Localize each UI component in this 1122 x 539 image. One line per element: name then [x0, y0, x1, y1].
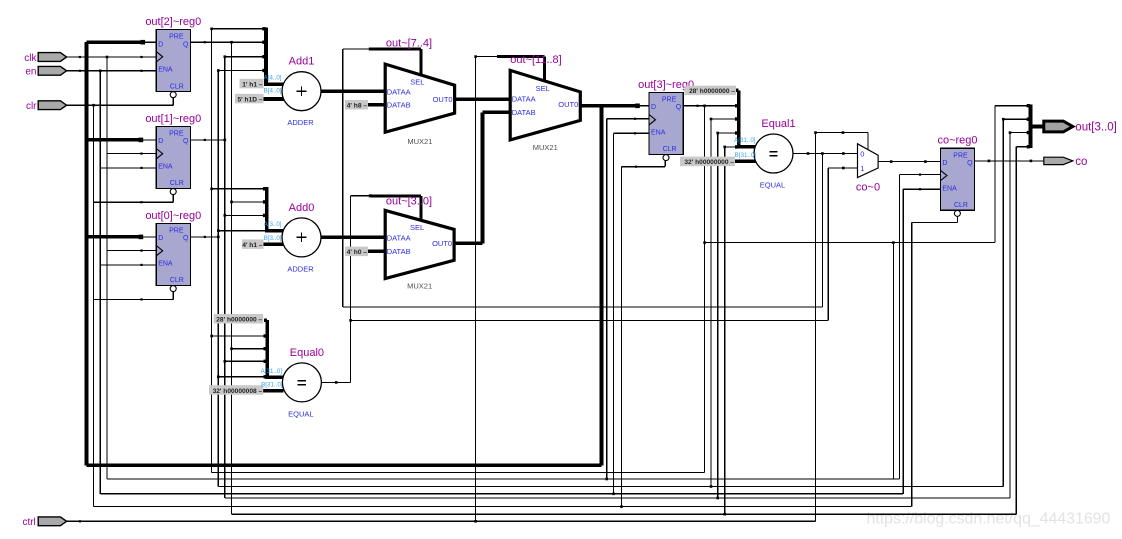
svg-text:B[31..0]: B[31..0]	[735, 152, 757, 159]
svg-text:SEL: SEL	[410, 78, 424, 87]
svg-text:DATAA: DATAA	[387, 233, 411, 242]
tick out2 ena	[140, 70, 142, 72]
label B[3..0] Add0	[264, 235, 282, 242]
wire add1 A bus	[264, 27, 268, 84]
svg-text:ENA: ENA	[942, 185, 957, 192]
junction eq0 branch	[349, 319, 352, 322]
wire mux74 B const	[368, 103, 385, 107]
wire mux30 out riser	[481, 112, 485, 243]
wire mux118 sel h thin	[476, 56, 497, 58]
svg-text:CLR: CLR	[663, 146, 677, 153]
svg-text:SEL: SEL	[536, 84, 550, 93]
wire en to out0 ENA	[100, 264, 156, 266]
wire clr riser to co-reg	[911, 223, 913, 507]
tick coreg ena	[919, 188, 921, 190]
nub out3 D	[635, 104, 640, 109]
wire bus stub to out0 D	[87, 235, 141, 239]
tick co0-1	[842, 167, 845, 170]
svg-text:SEL: SEL	[410, 223, 424, 232]
svg-text:out~[3..0]: out~[3..0]	[386, 195, 432, 207]
wire add0 row bit3	[212, 188, 267, 190]
wire eq1 col bit0	[724, 147, 726, 514]
svg-text:28' h0000000 –: 28' h0000000 –	[689, 88, 735, 95]
svg-text:DATAA: DATAA	[387, 87, 411, 96]
svg-text:out~[7..4]: out~[7..4]	[386, 38, 432, 50]
wire clk riser to co-reg clock	[899, 175, 901, 479]
input pin clk	[24, 53, 66, 64]
wire clr out1 bubble drop	[172, 195, 174, 203]
nub eq0 r4	[264, 375, 267, 378]
wire eq1 row bit2	[711, 118, 739, 120]
wire clr to out1 bubble h	[94, 201, 174, 203]
svg-text:Add0: Add0	[289, 202, 315, 214]
svg-text:PRE: PRE	[662, 97, 677, 104]
wire eq0 row bit0	[218, 376, 267, 378]
tick add0 out b	[369, 236, 372, 239]
wire add0 B const	[264, 242, 285, 246]
junction ctrl col top	[474, 55, 477, 58]
wire outbus col bit1	[1009, 133, 1011, 498]
wire out2 D thin tail	[143, 41, 156, 43]
mux out~[7..4]	[385, 38, 454, 147]
wire en bottom run	[100, 493, 903, 495]
nub add0 r2	[263, 200, 266, 203]
svg-text:MUX21: MUX21	[533, 143, 558, 152]
wire mux74 sel riser	[420, 49, 423, 76]
wire outbus col bit0	[1015, 147, 1017, 515]
svg-text:MUX21: MUX21	[407, 282, 432, 291]
wire eq1 A into comp	[737, 145, 756, 149]
wire ctrl sel col	[475, 57, 477, 522]
junction col3 eq0	[210, 335, 213, 338]
corner add1 r3	[224, 55, 227, 58]
svg-text:4' h1 –: 4' h1 –	[242, 242, 263, 249]
wire mux30 out	[454, 242, 482, 246]
wire eq0-out riser	[350, 196, 352, 383]
svg-text:D: D	[158, 41, 163, 48]
tick out3 clock	[634, 118, 636, 120]
wire clk pin to out2 clock	[67, 56, 157, 58]
svg-text:A[3..0]: A[3..0]	[264, 221, 282, 228]
nub add1 r1	[262, 27, 265, 30]
tick out0 clr	[140, 298, 142, 300]
wire col out0Q	[217, 71, 219, 487]
wire en vertical	[99, 71, 101, 494]
tick eq1 out a	[807, 152, 810, 155]
svg-text:DATAB: DATAB	[387, 100, 411, 109]
register out[0]~reg0	[145, 210, 201, 292]
wire bus out3 D thin tail	[638, 105, 650, 107]
constant 4'h0 (mux30 B)	[345, 247, 368, 257]
tick mux30 out	[466, 242, 469, 245]
svg-text:PRE: PRE	[169, 131, 184, 138]
wire out0 D thin tail	[141, 236, 156, 238]
nub out2 D	[141, 40, 146, 45]
svg-text:Q: Q	[183, 41, 189, 48]
svg-text:Q: Q	[676, 104, 682, 111]
tick out1 clr	[140, 201, 142, 203]
nub add1 r2	[262, 41, 265, 44]
junction col0 eq0	[217, 376, 220, 379]
svg-text:D: D	[158, 235, 163, 242]
junction bottom out0	[710, 485, 713, 488]
nub outbus r3	[1027, 131, 1030, 134]
nub eq0 r1	[264, 334, 267, 337]
register out[2]~reg0	[145, 16, 201, 98]
junction col0 add0	[217, 229, 220, 232]
svg-text:out[3..0]: out[3..0]	[1075, 122, 1117, 134]
svg-text:EQUAL: EQUAL	[288, 409, 313, 418]
junction en out3 riser	[612, 493, 615, 496]
wire eq0-out to sel	[351, 195, 371, 197]
constant 5'h1D (Add1 B)	[235, 94, 264, 104]
nub add1 r4	[262, 69, 265, 72]
wire outbus col bit3	[994, 106, 996, 243]
wire add1 A into adder	[264, 82, 284, 86]
svg-text:28' h0000000 –: 28' h0000000 –	[216, 317, 262, 324]
wire co0 sel h	[816, 132, 869, 134]
svg-text:ctrl: ctrl	[22, 517, 35, 528]
wire clr out0 bubble drop	[172, 292, 174, 300]
svg-text:https://blog.csdn.net/qq_44431: https://blog.csdn.net/qq_44431690	[867, 511, 1111, 528]
constant 28'h0000000 (Equal1 A)	[684, 86, 736, 96]
wire eq0 B const	[263, 389, 283, 393]
wire eq1 col bit3	[704, 106, 706, 473]
wire ctrl riser co0 sel	[815, 133, 817, 522]
wire mux118 sel h thick	[497, 55, 545, 58]
tick co q a	[988, 160, 991, 163]
wire clr vertical	[93, 105, 95, 506]
wire add1 row bit3	[212, 28, 266, 30]
wire clr riser to out3	[621, 167, 623, 507]
svg-text:OUT0: OUT0	[433, 95, 453, 104]
wire mux30 to mux118 B	[483, 111, 511, 115]
junction x893 top	[892, 241, 895, 244]
wire bottom out1 run	[225, 497, 1010, 499]
wire eq1 col bit1	[717, 133, 719, 498]
wire en pin to out2 ENA	[67, 70, 157, 72]
svg-text:CLR: CLR	[170, 180, 184, 187]
wire co0-1 input	[828, 167, 857, 169]
wire clr to out3 bubble h	[622, 166, 666, 168]
wire bus up left side	[85, 42, 89, 465]
constant 32'h00000000 (Equal1 B)	[680, 157, 735, 167]
label B[4..0] Add1	[264, 88, 282, 95]
wire add1 row bit0	[218, 70, 266, 72]
nub out1 D	[139, 138, 144, 143]
wire sel mux30 thick	[370, 194, 421, 197]
wire eq1 branch run	[343, 306, 823, 308]
wire eq1 row bit1	[718, 132, 739, 134]
wire col out2Q	[231, 42, 233, 514]
svg-text:DATAB: DATAB	[387, 247, 411, 256]
wire clk riser to out3 clock	[606, 119, 608, 479]
wire clk to co-reg clock	[900, 174, 941, 176]
svg-text:co: co	[1075, 156, 1087, 168]
wire eq0 A into comp	[265, 376, 283, 380]
wire eq0 const link	[264, 318, 267, 322]
svg-text:Add1: Add1	[289, 56, 315, 68]
svg-text:ADDER: ADDER	[287, 118, 314, 127]
svg-text:clk: clk	[24, 53, 37, 64]
register co~reg0	[937, 135, 977, 217]
junction bottom out1	[716, 497, 719, 500]
wire eq0 output	[321, 381, 350, 383]
junction co0 sel corner	[814, 131, 817, 134]
wire clr co-reg bubble drop	[956, 216, 958, 222]
wire eq0 A bus	[265, 320, 269, 377]
junction col2 eq0	[230, 347, 233, 350]
wire co0-1 riser	[827, 168, 829, 320]
input pin clr	[26, 101, 67, 112]
tick out2 clock	[140, 56, 142, 58]
mux out~[11..8]	[510, 54, 580, 152]
wire outbus row bit2	[1003, 118, 1030, 120]
tick eq1 out b	[842, 152, 845, 155]
wire en to co-reg ENA	[903, 188, 940, 190]
wire bottom out3 run	[212, 472, 705, 474]
svg-text:ENA: ENA	[158, 261, 173, 268]
output pin co	[1044, 156, 1088, 168]
adder Add0	[282, 202, 321, 274]
svg-text:DATAA: DATAA	[512, 94, 536, 103]
junction ctrl mux118	[474, 520, 477, 523]
tick sel mux30	[369, 194, 372, 197]
wire add0 row bit0	[218, 230, 266, 232]
wire eq1 col bit2	[710, 119, 712, 487]
corner add1 r4	[217, 69, 220, 72]
wire col out3Q	[211, 29, 213, 473]
svg-text:D: D	[158, 138, 163, 145]
svg-text:PRE: PRE	[169, 228, 184, 235]
wire outbus row bit0	[1016, 146, 1030, 148]
wire col out1Q	[224, 57, 226, 498]
wire en riser to out3 ENA	[613, 133, 615, 494]
svg-text:ADDER: ADDER	[287, 264, 314, 273]
svg-text:B[4..0]: B[4..0]	[264, 88, 282, 95]
svg-text:4' h8 –: 4' h8 –	[347, 103, 368, 110]
tick out3 q	[696, 105, 698, 107]
wire en riser to co-reg ENA	[902, 189, 904, 494]
tick out1 ena	[140, 167, 142, 169]
svg-text:0: 0	[860, 150, 864, 159]
tick co0 sel	[842, 131, 845, 134]
wire eq0 branch run	[351, 319, 829, 321]
svg-text:PRE: PRE	[169, 34, 184, 41]
label A[31..0] Equal1	[734, 137, 756, 144]
wire clr out3 bubble drop	[664, 161, 666, 167]
svg-text:D: D	[651, 104, 656, 111]
wire eq1 const link	[736, 89, 739, 93]
tick sel mux74	[369, 48, 372, 51]
tick clk pin	[79, 56, 81, 58]
wire add0 row bit1	[225, 214, 267, 216]
wire clr bottom run	[94, 506, 912, 508]
wire co0 out	[878, 161, 940, 163]
tick out0 ena	[140, 264, 142, 266]
tick co q b	[1030, 160, 1033, 163]
wire bottom out2 run	[232, 513, 1017, 515]
svg-text:out~[11..8]: out~[11..8]	[510, 54, 561, 66]
label A[31..0] Equal0	[261, 368, 283, 375]
wire add0 A into adder	[265, 229, 285, 233]
svg-text:Equal1: Equal1	[761, 118, 795, 130]
svg-text:PRE: PRE	[953, 152, 968, 159]
tick add1 out a	[334, 90, 337, 93]
wire sel mux30 riser	[420, 196, 423, 223]
junction out1Q col	[224, 139, 227, 142]
nub outbus r1	[1027, 104, 1030, 107]
wire out0 Q row	[190, 236, 218, 238]
junction bottom out2	[723, 513, 726, 516]
svg-text:DATAB: DATAB	[512, 108, 536, 117]
wire eq1 B const	[735, 160, 756, 164]
svg-text:ENA: ENA	[651, 130, 666, 137]
nub add1 r3	[262, 55, 265, 58]
comparator Equal0	[282, 347, 324, 419]
tick eq0 out	[335, 381, 338, 384]
wire clr pin run	[67, 104, 174, 106]
wire en to out1 ENA	[100, 167, 156, 169]
wire eq0 row bit3	[212, 335, 268, 337]
wire clr to out0 bubble h	[94, 298, 174, 300]
wire outbus col bit2	[1002, 119, 1004, 486]
wire bus bottom	[87, 464, 602, 468]
svg-text:OUT0: OUT0	[558, 100, 578, 109]
input pin en	[25, 66, 66, 77]
svg-text:CLR: CLR	[170, 277, 184, 284]
junction eq1 col3 row243	[703, 241, 706, 244]
label B[31..0] Equal0	[261, 382, 283, 389]
nub add0 r1	[263, 187, 266, 190]
wire mux118 sel riser	[543, 57, 546, 82]
wire mux74 out	[455, 97, 511, 101]
wire clr up to out2 bubble	[172, 98, 174, 105]
svg-text:32' h00000000 –: 32' h00000000 –	[684, 159, 734, 166]
wire clk to out1 clock	[107, 153, 156, 155]
junction out0Q col	[217, 236, 220, 239]
wire riser x893	[892, 243, 894, 479]
corner outbus bit2	[1002, 118, 1005, 121]
wire add0 row bit2	[232, 201, 267, 203]
wire eq0 row bit2	[232, 348, 268, 350]
junction col1 eq0	[224, 360, 227, 363]
svg-text:CLR: CLR	[170, 83, 184, 90]
svg-text:4' h0 –: 4' h0 –	[347, 249, 368, 256]
constant 4'h8 (mux74 B)	[345, 100, 368, 110]
corner add1 r1	[210, 28, 213, 31]
adder Add1	[282, 56, 321, 128]
junction col2 add0	[230, 201, 233, 204]
tick out1 q	[204, 139, 206, 141]
wire eq1 branch riser	[821, 154, 823, 308]
input pin ctrl	[22, 517, 66, 528]
wire clk to out0 clock	[107, 250, 156, 252]
label A[4..0] Add1	[264, 75, 282, 82]
junction eq1 branch	[821, 152, 824, 155]
tick coreg clock	[919, 174, 921, 176]
wire eq0 row bit1	[225, 360, 267, 362]
wire bus stub to out1 D	[87, 138, 141, 142]
junction clk vertical	[106, 56, 109, 59]
wire add1 row bit1	[225, 56, 266, 58]
wire mux74 sel h thick	[370, 48, 421, 51]
svg-text:32' h00000008 –: 32' h00000008 –	[213, 388, 263, 395]
corner eq1 bit1	[716, 132, 719, 135]
corner outbus bit1	[1009, 131, 1012, 134]
wire mux74 sel h thin	[343, 48, 371, 50]
svg-text:ENA: ENA	[158, 164, 173, 171]
svg-text:OUT0: OUT0	[432, 239, 452, 248]
tick ctrl pin	[79, 520, 81, 522]
svg-text:D: D	[942, 160, 947, 167]
junction col1 add0	[224, 214, 227, 217]
svg-text:Equal0: Equal0	[290, 347, 324, 359]
svg-text:Q: Q	[183, 235, 189, 242]
constant 4'h1 (Add0 B)	[242, 239, 264, 249]
wire eq1 A bus	[737, 90, 741, 146]
corner eq1 bit0	[723, 146, 726, 149]
wire add1 B const	[264, 97, 285, 101]
tick co0 out a	[890, 160, 893, 163]
corner eq1 bit2	[710, 118, 713, 121]
tick add0 out a	[334, 236, 337, 239]
wire eq1 row bit0	[725, 146, 739, 148]
nub eq1 r1	[735, 104, 738, 107]
wire out3 Q row	[683, 105, 739, 107]
wire out1 Q row	[190, 139, 224, 141]
wire clk vertical	[106, 57, 108, 479]
tick out3 ena	[634, 132, 636, 134]
nub eq1 r4	[735, 145, 738, 148]
tick add1 out b	[369, 90, 372, 93]
nub out0 D	[139, 235, 144, 240]
tick out0 q	[204, 236, 206, 238]
svg-text:CLR: CLR	[954, 202, 968, 209]
wire mux74 sel col	[342, 49, 344, 307]
wire co Q row	[975, 160, 1044, 162]
svg-text:A[4..0]: A[4..0]	[264, 75, 282, 82]
junction clr out3 riser	[620, 505, 623, 508]
svg-text:B[3..0]: B[3..0]	[264, 235, 282, 242]
register out[1]~reg0	[145, 113, 201, 195]
tick en pin	[79, 70, 81, 72]
register out[3]~reg0	[638, 79, 694, 161]
tick co0 out b	[924, 160, 927, 163]
wire outbus row bit1	[1010, 132, 1031, 134]
nub outbus r2	[1027, 118, 1030, 121]
nub eq0 r3	[264, 360, 267, 363]
wire clr to co-reg bubble h	[912, 222, 958, 224]
wire outbus vertical	[1029, 104, 1033, 148]
label A[3..0] Add0	[264, 221, 282, 228]
svg-text:5' h1D –: 5' h1D –	[237, 96, 262, 103]
wire clk bottom run	[107, 478, 900, 480]
wire mux30 B const	[368, 250, 385, 254]
wire bus down right side	[600, 106, 604, 466]
nub eq1 r3	[735, 131, 738, 134]
wire eq1 output	[793, 153, 858, 155]
mux out~[3..0]	[385, 195, 454, 290]
svg-text:en: en	[25, 67, 36, 78]
wire add0 A bus	[265, 187, 269, 231]
svg-text:1' h1 –: 1' h1 –	[242, 81, 263, 88]
svg-text:co~0: co~0	[856, 182, 880, 194]
wire out3 to outbus run	[705, 242, 995, 244]
wire add1 output	[321, 89, 385, 93]
svg-text:Q: Q	[183, 138, 189, 145]
watermark	[867, 511, 1111, 528]
